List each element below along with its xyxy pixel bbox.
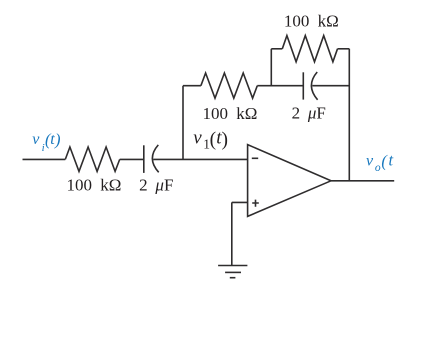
- capacitor C1 2uF right curved plate: [152, 145, 158, 172]
- ground bar 2: [225, 271, 241, 273]
- wire right vertical feedback to output: [348, 49, 350, 181]
- svg-text:vo(t: vo(t: [366, 150, 394, 173]
- svg-text:v1(t): v1(t): [193, 127, 228, 151]
- capacitor C2 2uF right curved plate: [311, 72, 317, 100]
- svg-text:100 kΩ: 100 kΩ: [67, 176, 122, 195]
- resistor R1 100 kOhm input: [65, 147, 119, 171]
- ground bar 1: [218, 265, 247, 267]
- wire C1 to op-amp minus input: [153, 158, 247, 160]
- svg-text:vi(t): vi(t): [32, 130, 60, 154]
- wire v1 to R2: [183, 85, 201, 87]
- svg-text:2 μF: 2 μF: [292, 103, 326, 122]
- wire R2 to C2: [257, 85, 303, 87]
- op-amp U1 triangle: [248, 145, 331, 217]
- node v1 riser wire: [182, 86, 184, 160]
- wire R1 to C1: [120, 158, 144, 160]
- wire top horizontal left: [271, 48, 282, 50]
- wire to ground: [231, 202, 233, 265]
- ground bar 3: [230, 277, 236, 279]
- svg-text:100 kΩ: 100 kΩ: [202, 104, 257, 123]
- wire C2 to right vertical: [312, 85, 349, 87]
- wire top horizontal right: [338, 48, 350, 50]
- resistor R3 100 kOhm top feedback: [282, 36, 337, 62]
- wire plus input: [232, 201, 248, 203]
- op-amp minus sign: [252, 157, 258, 159]
- op-amp plus sign: [252, 200, 259, 207]
- svg-text:100 kΩ: 100 kΩ: [284, 12, 339, 31]
- wire top-left vertical of feedback loop: [270, 49, 272, 86]
- svg-text:2 μF: 2 μF: [139, 176, 173, 195]
- capacitor C1 2uF left plate: [143, 145, 145, 173]
- wire input left: [23, 158, 66, 160]
- wire output: [331, 180, 394, 182]
- capacitor C2 2uF left plate: [302, 72, 304, 99]
- resistor R2 100 kOhm feedback: [201, 73, 257, 98]
